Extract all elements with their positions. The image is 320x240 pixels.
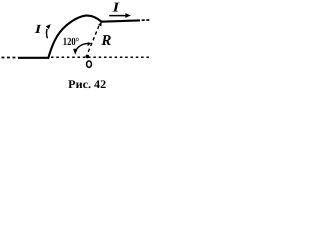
wire: upper-right dotted continuation [142, 19, 150, 21]
node axis: dotted line through O [51, 56, 150, 58]
label O [87, 61, 92, 68]
background [0, 0, 150, 96]
current arrow on rising wire (curved) [45, 29, 48, 38]
wire: upper straight segment [101, 20, 140, 21]
wire: lower-left straight segment [18, 57, 49, 59]
node O dot [86, 55, 90, 59]
svg-text:I: I [111, 0, 120, 14]
wire: lower-left dotted continuation [2, 57, 17, 59]
svg-text:R: R [100, 33, 111, 49]
svg-text:Рис. 42: Рис. 42 [68, 78, 106, 91]
radius R dashed arrow from O to arc [88, 25, 99, 52]
wire: circular arc bump [48, 16, 101, 58]
svg-text:120°: 120° [63, 36, 79, 48]
current arrow on upper wire [109, 15, 126, 17]
angle indicator double arrow [76, 44, 88, 51]
